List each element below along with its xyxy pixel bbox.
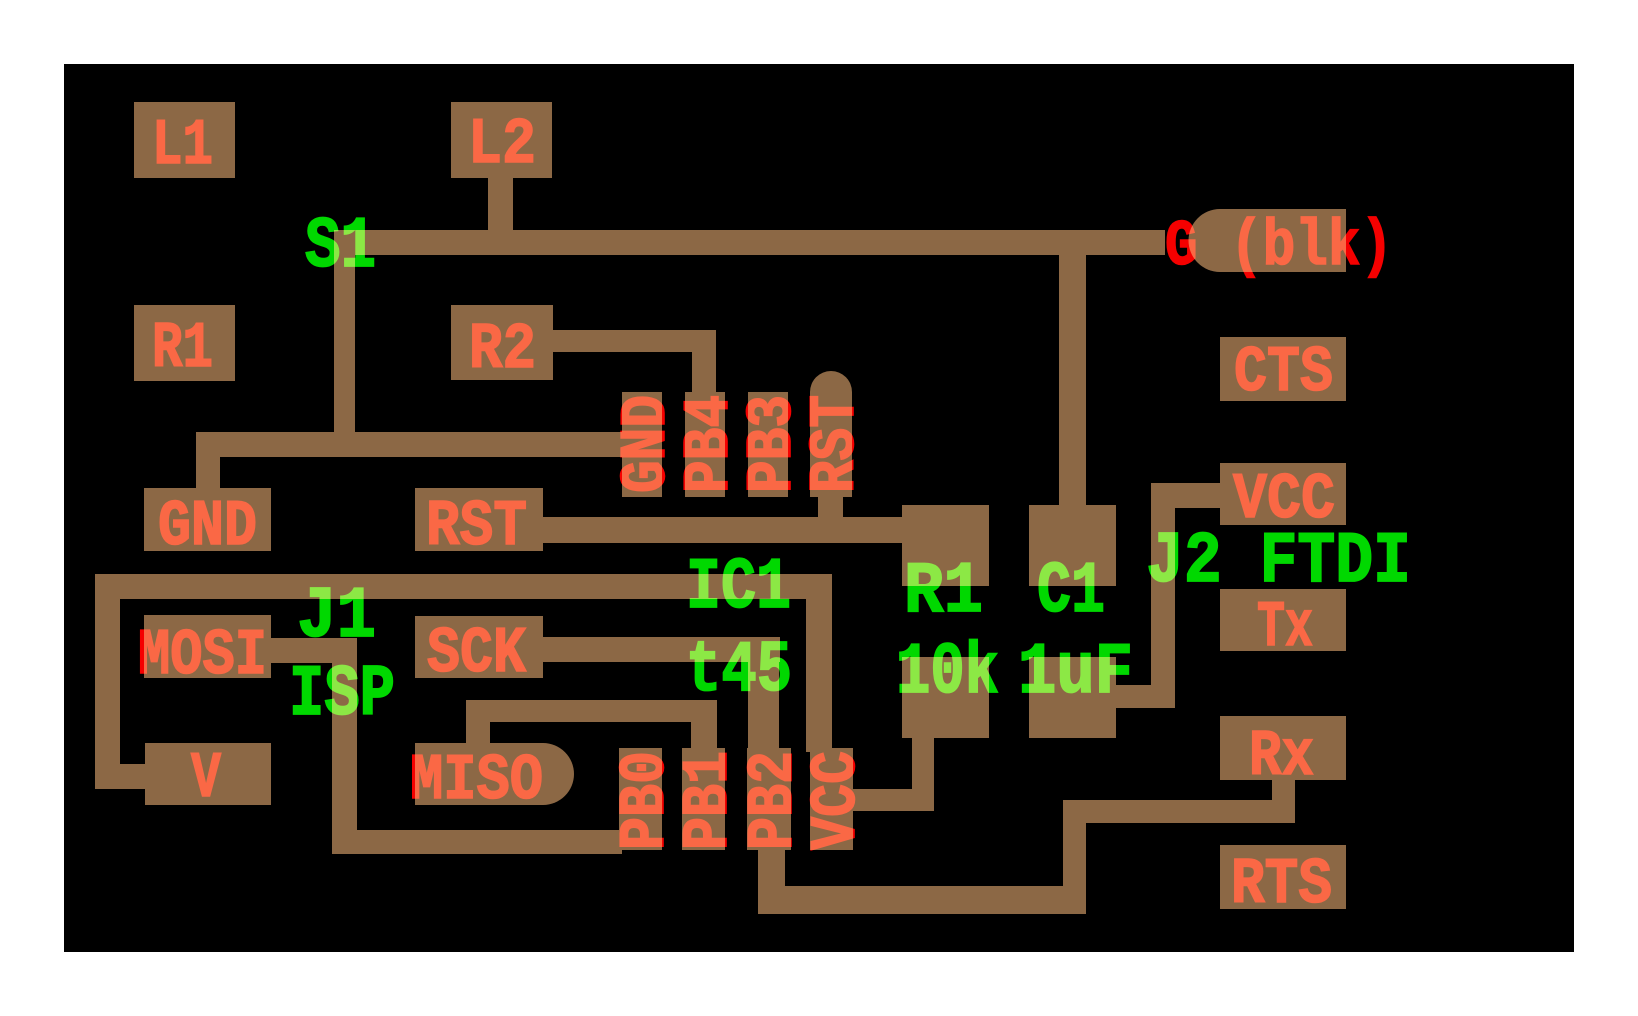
svg-text:L2: L2 xyxy=(468,108,536,182)
svg-text:1uF: 1uF xyxy=(1018,632,1133,714)
svg-text:S1: S1 xyxy=(305,206,376,288)
svg-text:MOSI: MOSI xyxy=(138,619,267,693)
svg-text:R2: R2 xyxy=(469,313,536,387)
svg-text:RTS: RTS xyxy=(1231,848,1332,922)
svg-text:GND: GND xyxy=(158,490,257,564)
svg-text:V: V xyxy=(191,742,221,816)
svg-text:C1: C1 xyxy=(1037,551,1105,633)
svg-text:10k: 10k xyxy=(896,632,999,714)
svg-text:R1: R1 xyxy=(904,551,983,633)
svg-text:PB1: PB1 xyxy=(672,751,746,850)
svg-text:G (blk): G (blk) xyxy=(1165,210,1393,284)
svg-text:SCK: SCK xyxy=(427,617,526,691)
svg-text:VCC: VCC xyxy=(800,751,874,850)
svg-text:IC1: IC1 xyxy=(686,547,791,629)
svg-text:Rx: Rx xyxy=(1249,720,1314,794)
svg-text:t45: t45 xyxy=(686,630,792,712)
svg-text:J1: J1 xyxy=(297,576,376,658)
svg-text:L1: L1 xyxy=(152,109,213,183)
svg-text:CTS: CTS xyxy=(1234,336,1333,410)
svg-text:RST: RST xyxy=(799,395,873,493)
svg-text:MISO: MISO xyxy=(410,744,543,818)
svg-text:R1: R1 xyxy=(152,312,213,386)
svg-text:ISP: ISP xyxy=(289,654,395,736)
svg-text:J2 FTDI: J2 FTDI xyxy=(1146,521,1411,603)
svg-text:RST: RST xyxy=(426,490,527,564)
